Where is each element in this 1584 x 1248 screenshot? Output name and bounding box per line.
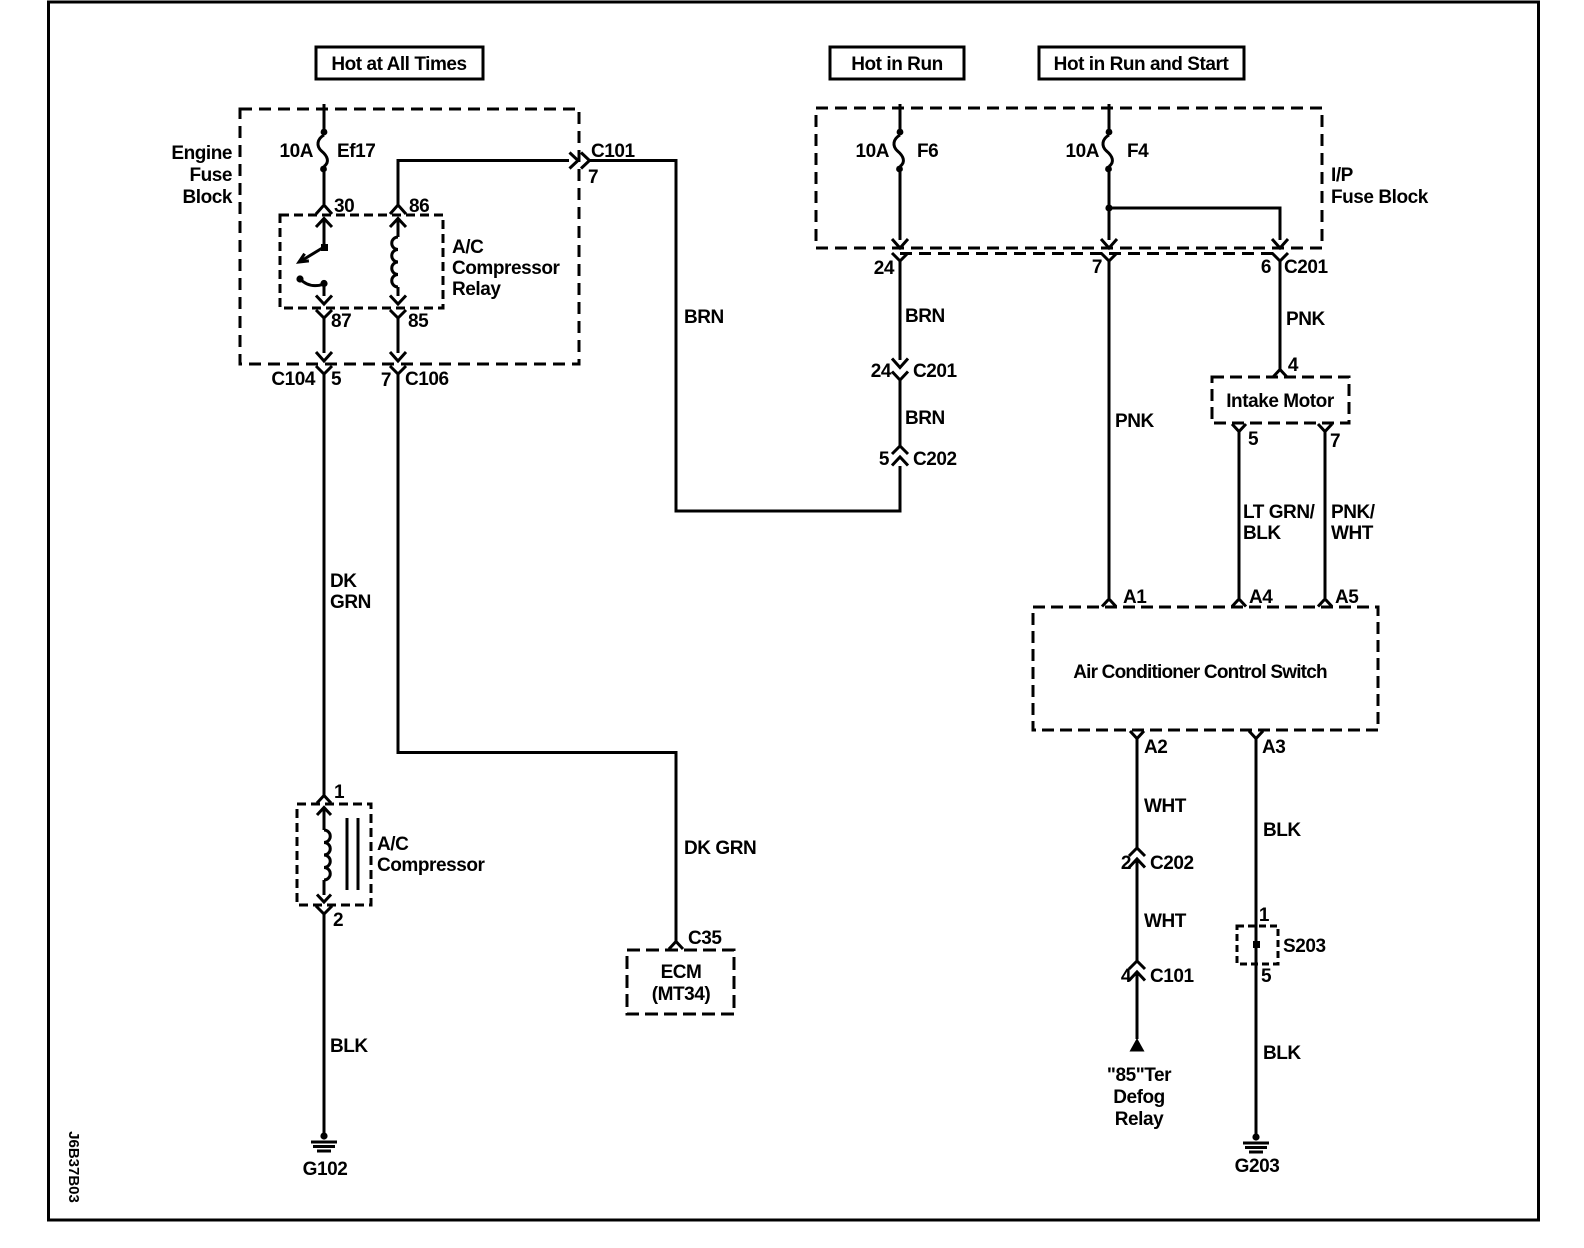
svg-text:Fuse: Fuse — [189, 165, 232, 186]
svg-text:BLK: BLK — [1263, 820, 1301, 841]
svg-text:DK GRN: DK GRN — [684, 838, 756, 859]
ECM (MT34) box — [627, 950, 734, 1014]
wire fuse Ef17 to relay pin 30 — [323, 172, 326, 204]
wire C202-2 to C101-4 (WHT) — [1136, 859, 1139, 961]
svg-text:DK: DK — [330, 571, 357, 592]
wire S203 down to ground G203 (BLK) — [1255, 963, 1258, 1134]
label A/C Compressor — [377, 834, 485, 876]
svg-text:4: 4 — [1121, 966, 1132, 987]
connector C202 pin 5 — [879, 446, 957, 470]
svg-text:Hot in Run and Start: Hot in Run and Start — [1054, 54, 1230, 75]
svg-text:Engine: Engine — [171, 143, 232, 164]
wire relay 87 to fuse block edge with arrow — [316, 318, 332, 361]
svg-text:I/P: I/P — [1331, 165, 1354, 186]
pin A1 chevron — [1102, 599, 1116, 607]
svg-text:85: 85 — [408, 311, 429, 332]
connector C202 pin 2 — [1121, 848, 1194, 874]
svg-text:87: 87 — [331, 311, 351, 332]
svg-text:10A: 10A — [855, 141, 889, 162]
svg-text:Relay: Relay — [1115, 1109, 1164, 1130]
connector C106 pin 7 — [381, 366, 449, 391]
svg-text:Relay: Relay — [452, 279, 501, 300]
connector pin 24 below I/P box — [874, 253, 908, 279]
wire relay 85 to fuse block edge with arrow — [390, 318, 406, 361]
pin 30 chevron — [316, 205, 332, 214]
svg-text:G102: G102 — [303, 1159, 348, 1180]
svg-text:PNK: PNK — [1286, 309, 1325, 330]
connector C101 pin 4 — [1121, 961, 1195, 987]
svg-text:C202: C202 — [1150, 853, 1194, 874]
svg-text:Hot at All Times: Hot at All Times — [331, 54, 466, 75]
wire intake 5 to A4 (LT GRN/BLK) — [1238, 432, 1241, 599]
svg-text:A1: A1 — [1123, 587, 1147, 608]
fuse F6 — [894, 129, 903, 173]
pin 86 chevron — [390, 205, 406, 214]
wire label LT GRN/BLK — [1243, 502, 1316, 544]
svg-text:7: 7 — [1092, 257, 1102, 278]
svg-text:C201: C201 — [913, 361, 958, 382]
wire from Engine Fuse Block top to fuse Ef17 — [323, 104, 326, 130]
svg-text:WHT: WHT — [1331, 523, 1374, 544]
svg-text:7: 7 — [588, 167, 598, 188]
svg-text:5: 5 — [879, 449, 890, 470]
wire F6 to I/P bottom edge with arrow — [892, 172, 908, 248]
splice S203 box — [1237, 926, 1278, 964]
wire label PNK/WHT — [1331, 502, 1376, 544]
svg-text:C101: C101 — [1150, 966, 1195, 987]
pin A4 chevron — [1232, 599, 1246, 607]
svg-text:(MT34): (MT34) — [652, 984, 711, 1005]
svg-text:2: 2 — [333, 910, 343, 931]
label I/P Fuse Block — [1331, 165, 1429, 208]
pin A2 chevron — [1130, 731, 1167, 758]
svg-text:WHT: WHT — [1144, 911, 1187, 932]
svg-text:A5: A5 — [1335, 587, 1359, 608]
svg-text:BRN: BRN — [905, 408, 945, 429]
A/C compressor plates — [347, 818, 358, 890]
connector C35 chevron at ECM — [669, 928, 722, 949]
svg-text:7: 7 — [1330, 431, 1340, 452]
svg-text:24: 24 — [871, 361, 892, 382]
svg-text:G203: G203 — [1235, 1156, 1280, 1177]
svg-text:J6B37B03: J6B37B03 — [65, 1131, 82, 1203]
svg-text:BRN: BRN — [905, 306, 945, 327]
svg-text:5: 5 — [331, 369, 342, 390]
wire A2 down to C202-2 (WHT) — [1136, 739, 1139, 849]
svg-text:BLK: BLK — [1263, 1043, 1301, 1064]
svg-text:Compressor: Compressor — [452, 258, 560, 279]
wire C104-5 down to A/C compressor pin 1 (DK GRN) — [323, 374, 326, 795]
svg-text:7: 7 — [381, 370, 391, 391]
A/C compressor pin 2 chevron — [316, 906, 343, 931]
A/C Compressor box — [297, 804, 371, 905]
svg-text:Intake Motor: Intake Motor — [1226, 391, 1335, 412]
svg-text:C201: C201 — [1284, 257, 1329, 278]
connector C101 pin 7 (engine side) — [570, 141, 636, 188]
connector pin 7 below I/P box — [1092, 253, 1117, 278]
svg-text:S203: S203 — [1283, 936, 1326, 957]
svg-text:10A: 10A — [279, 141, 313, 162]
connector bar below I/P fuse block — [900, 252, 1280, 255]
svg-text:BRN: BRN — [684, 307, 724, 328]
wire A3 down to S203 (BLK) — [1255, 739, 1258, 928]
fuse Ef17 — [318, 129, 327, 173]
svg-text:C35: C35 — [688, 928, 722, 949]
svg-text:24: 24 — [874, 258, 895, 279]
pin A3 chevron — [1249, 731, 1285, 758]
wire C201-6 down to intake motor pin 4 (PNK) — [1279, 261, 1282, 369]
svg-text:A3: A3 — [1262, 737, 1285, 758]
svg-text:GRN: GRN — [330, 592, 371, 613]
svg-text:2: 2 — [1121, 853, 1131, 874]
svg-text:PNK/: PNK/ — [1331, 502, 1376, 523]
svg-text:C106: C106 — [405, 369, 449, 390]
Engine Fuse Block box — [240, 109, 579, 364]
relay switch contact (pin 30 to 87) — [296, 219, 332, 305]
junction dot on F4 branch — [1105, 204, 1112, 211]
wire C201-24 to C202-5 (BRN) — [899, 380, 902, 446]
wire compressor 2 down to ground G102 (BLK) — [323, 914, 326, 1133]
ground G102 — [311, 1132, 337, 1151]
wire relay 86 up and right to C101 — [398, 161, 569, 206]
svg-text:WHT: WHT — [1144, 796, 1187, 817]
svg-text:Defog: Defog — [1113, 1087, 1165, 1108]
pin 4 chevron — [1273, 370, 1287, 378]
svg-text:1: 1 — [334, 782, 345, 803]
off-page triangle to defog relay — [1130, 1038, 1145, 1052]
I/P Fuse Block box — [816, 108, 1322, 248]
wire label DK GRN — [330, 571, 371, 613]
svg-text:A4: A4 — [1249, 587, 1273, 608]
svg-text:Air Conditioner Control Switch: Air Conditioner Control Switch — [1073, 662, 1327, 683]
wire from I/P top to fuse F4 — [1108, 104, 1111, 130]
Intake Motor box — [1212, 377, 1349, 423]
svg-text:F4: F4 — [1127, 141, 1149, 162]
pin A5 chevron — [1318, 599, 1332, 607]
svg-text:Hot in Run: Hot in Run — [851, 54, 943, 75]
label Engine Fuse Block — [171, 143, 233, 208]
svg-text:Block: Block — [183, 187, 233, 208]
svg-text:6: 6 — [1261, 257, 1271, 278]
pin 7 chevron below intake motor — [1318, 424, 1340, 452]
svg-text:1: 1 — [1259, 905, 1270, 926]
wire intake 7 to A5 (PNK/WHT) — [1324, 432, 1327, 599]
wire C101 right, down, right to C202-5 (BRN) — [590, 161, 901, 512]
label "Hot in Run" — [830, 47, 964, 79]
wire pin 7 down to A1 (PNK) — [1108, 261, 1111, 598]
connector C104 pin 5 — [271, 366, 342, 390]
svg-text:"85"Ter: "85"Ter — [1107, 1065, 1172, 1086]
svg-text:C101: C101 — [591, 141, 636, 162]
wire C106-7 down, right, down to ECM C35 (DK GRN) — [398, 374, 676, 941]
wire F4 down to I/P bottom with arrow — [1101, 172, 1117, 248]
label ECM (MT34) — [652, 962, 711, 1005]
ground G203 — [1243, 1133, 1269, 1152]
svg-text:A/C: A/C — [452, 237, 484, 258]
svg-text:ECM: ECM — [661, 962, 702, 983]
relay coil (pin 86 to 85) — [390, 219, 406, 305]
svg-text:LT GRN/: LT GRN/ — [1243, 502, 1316, 523]
label "85"Ter Defog Relay — [1107, 1065, 1172, 1130]
wire from I/P top to fuse F6 — [899, 104, 902, 130]
connector C201 pin 6 — [1261, 253, 1329, 278]
svg-text:A/C: A/C — [377, 834, 409, 855]
svg-text:Compressor: Compressor — [377, 855, 485, 876]
svg-text:4: 4 — [1288, 355, 1299, 376]
svg-text:86: 86 — [409, 196, 429, 217]
svg-text:BLK: BLK — [1243, 523, 1281, 544]
svg-text:C104: C104 — [271, 369, 316, 390]
svg-text:PNK: PNK — [1115, 411, 1154, 432]
wire pin 24 to C201-24 (BRN) — [899, 261, 902, 360]
label A/C Compressor Relay — [452, 237, 560, 300]
svg-text:5: 5 — [1248, 429, 1259, 450]
pin 87 chevron — [316, 310, 332, 318]
svg-text:Fuse Block: Fuse Block — [1331, 187, 1429, 208]
svg-text:10A: 10A — [1065, 141, 1099, 162]
svg-text:A2: A2 — [1144, 737, 1167, 758]
wire branch from F4 to C201-6 — [1109, 208, 1288, 248]
svg-text:F6: F6 — [917, 141, 938, 162]
Air Conditioner Control Switch box — [1033, 607, 1378, 730]
pin 5 chevron below intake motor — [1232, 424, 1259, 450]
connector C201 pin 24 — [871, 359, 958, 383]
label "Hot in Run and Start" — [1039, 47, 1244, 79]
svg-text:5: 5 — [1261, 966, 1272, 987]
svg-text:C202: C202 — [913, 449, 957, 470]
A/C compressor pin 1 chevron — [317, 782, 345, 803]
pin 85 chevron — [390, 310, 406, 318]
label "Hot at All Times" — [316, 47, 483, 79]
relay A/C Compressor Relay box — [280, 215, 443, 308]
fuse F4 — [1103, 129, 1112, 173]
A/C compressor coil — [317, 808, 331, 903]
wire C101-4 down to off-page triangle — [1136, 972, 1139, 1039]
svg-text:BLK: BLK — [330, 1036, 368, 1057]
svg-text:Ef17: Ef17 — [337, 141, 375, 162]
